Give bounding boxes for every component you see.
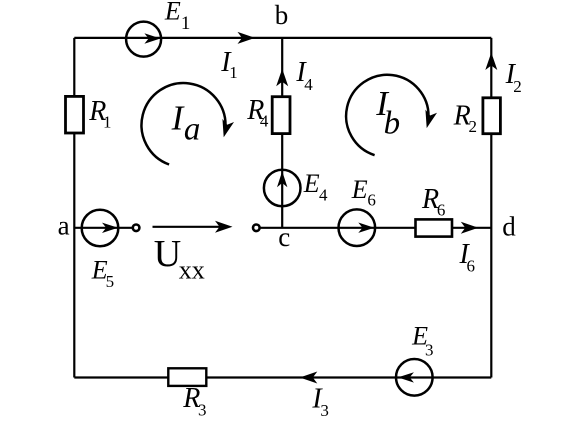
- source E3: [396, 359, 433, 396]
- resistor R3: [168, 368, 206, 386]
- current arrow I1: [238, 32, 256, 44]
- source E5: [82, 210, 119, 247]
- source E1: [126, 22, 161, 57]
- source E4: [264, 170, 301, 207]
- svg-text:Uxx: Uxx: [154, 233, 205, 285]
- svg-text:a: a: [58, 210, 70, 240]
- wire right branch: [490, 38, 492, 378]
- wire a to left terminal: [74, 227, 132, 229]
- svg-text:I4: I4: [295, 57, 313, 94]
- resistor R6: [416, 219, 453, 236]
- svg-text:R4: R4: [246, 95, 269, 130]
- svg-text:Ia: Ia: [171, 98, 201, 147]
- current arrow I2: [485, 53, 497, 71]
- svg-text:R3: R3: [182, 383, 206, 420]
- mesh current Ia: [142, 83, 235, 164]
- terminal left: [133, 225, 140, 232]
- svg-text:E1: E1: [164, 0, 191, 34]
- current arrow I6: [461, 222, 479, 234]
- svg-text:I2: I2: [505, 59, 522, 96]
- svg-text:E5: E5: [91, 256, 114, 291]
- wire left branch: [73, 38, 75, 378]
- svg-text:I6: I6: [459, 239, 476, 275]
- current arrow I4: [276, 69, 288, 87]
- svg-text:I3: I3: [311, 383, 329, 420]
- resistor R4: [272, 97, 290, 134]
- svg-text:d: d: [502, 211, 516, 241]
- svg-text:b: b: [275, 0, 289, 30]
- svg-text:R2: R2: [453, 100, 477, 136]
- svg-text:R1: R1: [88, 96, 111, 132]
- resistor R2: [483, 98, 501, 134]
- source E6: [339, 209, 376, 246]
- svg-text:c: c: [278, 222, 290, 252]
- svg-text:R6: R6: [421, 184, 445, 220]
- mesh current Ib: [346, 75, 437, 155]
- wire c to d: [260, 227, 492, 229]
- svg-text:Ib: Ib: [375, 84, 400, 141]
- wire b to c: [281, 38, 283, 228]
- svg-text:I1: I1: [220, 47, 238, 82]
- wire bottom row: [74, 376, 491, 378]
- svg-text:E6: E6: [351, 175, 376, 210]
- wire top row: [74, 37, 491, 39]
- terminal right: [253, 225, 260, 232]
- current arrow I3: [300, 372, 318, 384]
- svg-text:E3: E3: [411, 321, 433, 359]
- voltage arrow Uxx: [153, 221, 233, 233]
- resistor R1: [66, 96, 84, 133]
- svg-text:E4: E4: [303, 169, 328, 205]
